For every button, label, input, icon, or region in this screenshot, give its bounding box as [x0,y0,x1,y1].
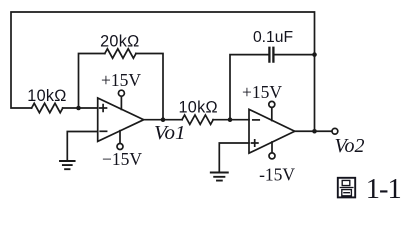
wire capacitor branch left [230,55,268,120]
U1 positive supply circle [118,90,124,96]
svg-text:−15V: −15V [102,149,142,169]
op-amp U2 [249,109,295,153]
svg-text:+15V: +15V [101,70,141,90]
wire R3 to U2 inverting input [213,119,249,121]
U2 noninverting + sign [252,140,258,146]
wire U1 inverting input to ground [67,132,97,162]
wire U2 noninverting input to ground [219,143,249,173]
svg-text:-15V: -15V [259,164,295,184]
resistor R1 [32,103,63,112]
node U2 output junction [312,129,317,134]
U1 inverting - sign [100,130,106,132]
label figure glyph tu [338,178,355,198]
node U2 inverting input junction [228,117,233,122]
op-amp U1 [98,98,144,141]
resistor R3 [182,115,213,124]
U1 noninverting + sign [100,105,107,112]
node U1 input junction [76,106,81,111]
U1 negative supply terminal [119,131,121,144]
wire U1 output to R3 [144,119,182,121]
svg-text:Vo2: Vo2 [335,135,365,157]
U2 inverting - sign [253,119,259,121]
U2 positive supply circle [269,101,275,107]
wire 20k feedback loop left segment [79,54,105,109]
U2 positive supply terminal [271,108,273,121]
ground U2 [211,173,228,181]
wire overall feedback loop Vo2 node to R1 input [11,12,315,131]
wire capacitor to feedback node [275,54,315,56]
svg-text:1-1: 1-1 [366,174,401,205]
node capacitor feedback junction [312,52,317,57]
node U1 output [161,117,166,122]
svg-text:10kΩ: 10kΩ [27,87,66,105]
wire R1 to U1 noninverting input [63,107,98,109]
svg-text:+15V: +15V [242,82,282,102]
svg-text:20kΩ: 20kΩ [100,33,139,51]
U1 negative supply circle [117,144,123,150]
wire 20k feedback loop right segment [136,54,163,120]
svg-text:0.1uF: 0.1uF [253,29,293,46]
svg-text:Vo1: Vo1 [154,122,186,144]
resistor R2 [105,49,136,58]
capacitor C1 plates [269,48,273,62]
terminal Vo2 [332,128,338,134]
U2 negative supply circle [269,153,275,159]
U1 positive supply terminal [120,96,122,109]
U2 negative supply terminal [271,142,273,153]
wire U2 output [295,130,332,132]
ground U1 [60,161,75,169]
svg-text:10kΩ: 10kΩ [178,99,217,117]
